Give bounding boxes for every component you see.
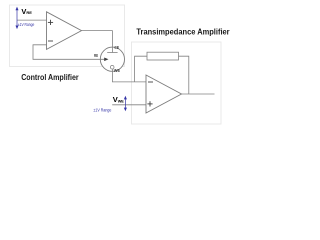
- feedback path of transimpedance amp: [135, 56, 147, 82]
- wire: feedback from - input to RE (with arrow into cell): [33, 45, 105, 60]
- wire: op-amp output to CE top of cell: [82, 31, 113, 47]
- blue range arrow at VRE: [16, 8, 18, 29]
- wire: VWE node to + input: [112, 104, 146, 106]
- RE arrowhead inside cell: [104, 58, 108, 62]
- op-amp U1 (control amplifier): [47, 12, 82, 50]
- wire: transimpedance output: [182, 93, 215, 95]
- minus sign U1: [48, 40, 53, 42]
- svg-text:WE: WE: [114, 68, 120, 73]
- svg-text:±1V Range: ±1V Range: [18, 22, 35, 27]
- blue range arrow at VWE: [124, 97, 126, 111]
- plus sign U1: [48, 20, 53, 25]
- svg-text:Transimpedance Amplifier: Transimpedance Amplifier: [136, 27, 229, 36]
- minus sign U2: [148, 81, 153, 83]
- svg-text:Control Amplifier: Control Amplifier: [21, 73, 78, 82]
- faint group box left (control amplifier section): [10, 5, 125, 67]
- WE electrode (small circle) inside cell: [110, 65, 114, 69]
- wire: WE from cell bottom to transimpedance - input: [112, 69, 146, 82]
- electrochemical cell (circle): [100, 47, 124, 71]
- feedback resistor: [147, 52, 179, 60]
- svg-text:CE: CE: [114, 45, 119, 50]
- wire: resistor to output: [179, 56, 189, 94]
- wire: VRE node to op-amp + input: [17, 19, 47, 21]
- svg-text:±1V Range: ±1V Range: [93, 107, 111, 112]
- svg-text:RE: RE: [94, 53, 98, 58]
- plus sign U2: [147, 101, 152, 106]
- faint group box right (transimpedance section): [132, 42, 222, 124]
- op-amp U2 (transimpedance amplifier): [146, 75, 182, 113]
- CE electrode inside cell: [111, 47, 113, 52]
